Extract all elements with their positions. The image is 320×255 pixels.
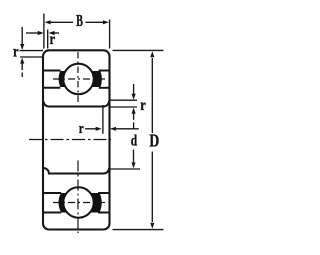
wire: bore line of bottom section with corner arcs [43,168,109,174]
extension line: right face for B [109,20,111,49]
cage wedge bottom-right (filled) [90,193,102,213]
svg-text:r: r [50,31,56,48]
wire: inner ring OD line, top section right [99,87,110,89]
cage wedge top-right (filled) [91,71,102,87]
wire: outer ring ID line, bottom section right [98,212,109,214]
r dim upper arrow (points down) [21,27,23,44]
extension line: bottom face extended right (D dim) [113,229,164,231]
wire: outer ring ID line, bottom section left [43,212,61,214]
centerline: top ball vertical [77,52,79,103]
right vertical r dim: upper arrow (points down) [133,84,135,94]
wire: inner ring OD line, bottom section right [98,192,109,194]
extension line: bore corner tangent vertical (gap r dim) [102,105,104,134]
svg-text:r: r [13,44,19,61]
wire: inner ring OD line, bottom section left [43,192,61,194]
ball (top section) [63,64,93,94]
extension line: left face for B [43,14,45,49]
centerline: bottom ball horizontal [53,202,105,204]
wire: bore line of top section with corner arcs [43,101,109,107]
r dim lower arrow (points up) [21,64,23,71]
top horizontal r dim: left arrow (points right) [26,32,39,34]
bearing outline (outer rounded rectangle, OD x faces) [43,50,110,229]
d dimension line lower part with down arrow [133,150,135,163]
extension line: corner tangent vertical (top r dim) [47,30,49,49]
arrowhead B left [45,20,51,24]
extension line: bottom bore level extended right [109,168,141,170]
ball (bottom section) [63,187,93,217]
right vertical r dim: lower arrow (points up) [133,113,135,128]
D dimension line with arrows [151,58,153,133]
gap horizontal r dim: left arrow (points right) [85,128,96,130]
centerline: top ball horizontal [53,78,105,80]
svg-text:D: D [149,131,159,151]
dimension line B right segment [86,21,104,23]
svg-text:d: d [131,133,137,150]
wire: inner ring OD line, top section left [43,87,60,89]
wire: outer ring ID line, top section left [43,70,61,72]
svg-text:r: r [140,97,146,114]
wire: outer ring ID line, top section right [99,70,110,72]
cage wedge bottom-left (filled) [59,193,68,213]
extension line: inner-ring corner tangent extended right [110,99,137,101]
extension line: top face extended left (r dim) [20,50,44,52]
svg-text:r: r [79,121,84,137]
extension line: bore level extended right [110,106,137,108]
centerline: bottom ball vertical [77,161,79,234]
svg-text:B: B [76,11,83,30]
arrowhead B right [103,20,109,24]
centerline: main horizontal axis (dash-dot) [29,139,111,141]
cage wedge top-left (filled) [59,71,66,87]
extension line: corner tangent extended left (r dim) [20,56,44,58]
gap horizontal r dim: right arrow (points left) [110,127,116,131]
dimension line B left segment [51,21,74,23]
top horizontal r dim: right arrow (points left) [49,31,55,35]
extension line: top face extended right (D dim) [113,49,164,51]
